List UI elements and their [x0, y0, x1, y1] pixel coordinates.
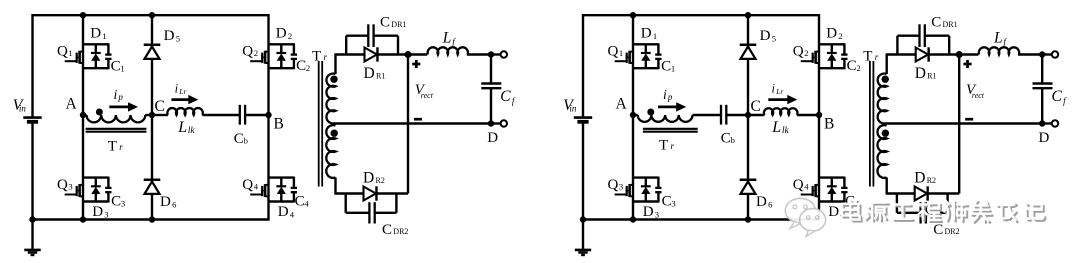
label D3: [92, 204, 108, 220]
label C2: [847, 58, 861, 74]
svg-text:DR2: DR2: [945, 227, 960, 236]
inductor Llk: [764, 108, 798, 115]
plus sign left: [412, 60, 420, 68]
label C4: [845, 194, 860, 210]
junction output plus left: [488, 51, 494, 57]
capacitor Cb: [721, 105, 735, 147]
wire middle leg: [747, 15, 749, 219]
wire center tap right: [887, 122, 1042, 124]
svg-text:f: f: [1003, 37, 1007, 47]
junction output minus left: [488, 120, 494, 126]
diode D_R2 right: [915, 186, 928, 200]
label C_DR2 left: [382, 222, 408, 238]
polarity dot secondary upper left: [330, 76, 337, 83]
svg-text:Lr: Lr: [775, 87, 783, 96]
svg-text:C: C: [931, 14, 941, 30]
svg-text:DR1: DR1: [391, 20, 406, 29]
svg-text:2: 2: [804, 48, 808, 58]
capacitor C_DR2 right: [897, 194, 948, 224]
wire Lf to output right: [1018, 53, 1042, 55]
junction ground node: [29, 216, 35, 222]
svg-text:C: C: [500, 88, 511, 105]
terminal minus left: [501, 120, 507, 126]
svg-text:T: T: [312, 48, 321, 64]
junction ground node: [580, 216, 586, 222]
transistor Q4: [250, 177, 297, 203]
svg-text:1: 1: [120, 63, 124, 73]
transformer core secondary left: [319, 61, 323, 187]
plus sign right: [963, 60, 971, 68]
svg-text:3: 3: [655, 209, 659, 219]
polarity dot secondary lower left: [331, 130, 338, 137]
terminal minus right: [1052, 120, 1058, 126]
label Cf left: [500, 88, 516, 106]
label Cf right: [1052, 88, 1068, 106]
node C: [149, 98, 165, 118]
label Q2: [793, 44, 809, 60]
polarity dot secondary upper right: [882, 76, 889, 83]
wire right leg: [267, 14, 269, 221]
wire secondary top right: [886, 55, 916, 75]
wire D_R2 to cathode line left: [377, 192, 408, 194]
svg-text:D: D: [160, 194, 171, 210]
node D left: [487, 130, 498, 146]
junction cathode node right: [956, 51, 963, 58]
svg-text:D: D: [364, 65, 375, 82]
svg-text:C: C: [234, 131, 244, 147]
junction bottom-middle: [745, 216, 751, 222]
node C: [745, 98, 761, 118]
label D4: [828, 204, 845, 220]
svg-text:C: C: [296, 58, 306, 74]
node D right: [1039, 130, 1050, 146]
wire Vin rail upper: [582, 14, 584, 117]
battery Vin: [13, 97, 42, 122]
svg-text:L: L: [771, 119, 781, 136]
label Q3: [57, 177, 73, 193]
junction bottom-left: [80, 216, 86, 222]
svg-text:R1: R1: [927, 72, 936, 81]
diode D6: [740, 180, 757, 194]
svg-text:T: T: [108, 138, 117, 154]
svg-text:D: D: [487, 130, 498, 146]
capacitor Cf left: [481, 55, 501, 124]
transformer primary winding Tr: [638, 115, 693, 122]
capacitor C_DR2 left: [346, 194, 397, 224]
svg-text:T: T: [863, 48, 872, 64]
svg-text:C: C: [933, 222, 943, 238]
label Q1: [57, 44, 73, 60]
wire to terminal plus right: [1042, 53, 1052, 55]
wire cathode line left: [407, 55, 409, 194]
wire C to Llk: [748, 114, 765, 116]
node B: [265, 112, 284, 133]
svg-text:2: 2: [856, 63, 860, 73]
label D2: [826, 25, 842, 41]
transformer core primary: [86, 129, 147, 132]
inductor Llk: [167, 108, 202, 115]
label D1: [641, 25, 657, 41]
wire D_R2 to cathode line right: [928, 192, 959, 194]
label Llk: [177, 119, 195, 136]
svg-text:3: 3: [68, 182, 72, 192]
label D1: [90, 25, 106, 41]
svg-text:DR1: DR1: [943, 20, 958, 29]
svg-text:b: b: [731, 135, 735, 145]
svg-text:D: D: [826, 25, 837, 41]
wire top rail: [583, 14, 819, 16]
transistor Q1: [615, 43, 662, 69]
svg-text:R2: R2: [927, 176, 936, 185]
terminal plus right: [1052, 51, 1058, 57]
polarity dot primary: [96, 109, 103, 116]
svg-text:i: i: [114, 87, 118, 102]
label C_DR1 left: [380, 14, 406, 30]
svg-text:D: D: [643, 204, 654, 220]
svg-text:rect: rect: [972, 91, 985, 100]
transistor Q4: [801, 177, 848, 203]
junction top-middle: [745, 12, 751, 18]
wire junction to Lf right: [959, 53, 978, 55]
current arrow ip: [109, 87, 138, 111]
junction top-middle: [149, 12, 155, 18]
wire Cb to C: [726, 114, 748, 116]
wire Cb to B: [245, 114, 268, 116]
wire Vin rail lower: [31, 122, 33, 220]
junction bottom-middle: [149, 216, 155, 222]
svg-text:B: B: [824, 116, 834, 133]
diode D6: [144, 180, 161, 194]
svg-text:C: C: [721, 131, 731, 147]
svg-text:r: r: [324, 52, 328, 62]
svg-text:C: C: [155, 98, 165, 115]
wire coil to Cb: [693, 114, 721, 116]
transformer secondary winding upper left: [326, 74, 335, 124]
capacitor Cf right: [1033, 55, 1053, 124]
wire secondary bottom left: [334, 178, 363, 194]
svg-text:C: C: [382, 222, 392, 238]
svg-text:6: 6: [172, 199, 177, 209]
wire to terminal plus left: [491, 53, 501, 55]
capacitor Cb: [234, 105, 248, 147]
wire secondary bottom right: [886, 178, 915, 194]
svg-text:Lr: Lr: [178, 87, 186, 96]
label Q2: [242, 44, 258, 60]
svg-text:D: D: [1039, 130, 1050, 146]
watermark logo: [785, 198, 825, 236]
terminal plus left: [501, 51, 507, 57]
svg-text:T: T: [659, 138, 668, 154]
diode D_R2 left: [364, 186, 377, 200]
svg-text:r: r: [119, 142, 123, 152]
svg-text:lk: lk: [188, 126, 196, 136]
svg-text:1: 1: [671, 63, 675, 73]
svg-text:L: L: [442, 29, 452, 46]
svg-text:L: L: [993, 29, 1003, 46]
label Q4: [793, 177, 809, 193]
transistor Q3: [65, 177, 112, 203]
label Llk: [771, 119, 789, 136]
label D_R2 right: [914, 170, 936, 187]
svg-text:D: D: [756, 194, 767, 210]
svg-text:in: in: [19, 104, 27, 114]
svg-text:D: D: [915, 65, 926, 82]
svg-text:C: C: [1052, 88, 1063, 105]
svg-text:4: 4: [804, 182, 809, 192]
label D5: [760, 28, 776, 44]
minus sign right: [965, 118, 973, 121]
svg-text:i: i: [772, 82, 776, 96]
node B: [816, 112, 835, 133]
capacitor C_DR1 right: [897, 24, 949, 54]
svg-text:Q: Q: [242, 177, 253, 193]
wire bottom rail: [33, 218, 269, 220]
watermark text: [842, 200, 1045, 222]
wire Llk to B: [797, 114, 819, 116]
svg-text:i: i: [175, 82, 179, 96]
label Q3: [608, 177, 624, 193]
svg-text:R1: R1: [376, 72, 385, 81]
polarity dot secondary lower right: [882, 130, 889, 137]
wire top rail: [33, 14, 269, 16]
svg-text:C: C: [847, 58, 857, 74]
diode D5: [144, 45, 161, 59]
svg-text:1: 1: [619, 48, 623, 58]
svg-text:5: 5: [176, 33, 180, 43]
svg-text:A: A: [66, 95, 78, 112]
wire Lf to output left: [467, 53, 491, 55]
label D3: [643, 204, 659, 220]
svg-text:C: C: [380, 14, 390, 30]
svg-text:6: 6: [768, 199, 773, 209]
wire coil to C: [145, 114, 152, 116]
svg-text:4: 4: [290, 209, 295, 219]
battery Vin: [563, 97, 592, 122]
svg-text:lk: lk: [782, 126, 790, 136]
current arrow ip: [658, 87, 686, 111]
label C2: [296, 58, 310, 74]
svg-text:f: f: [512, 96, 516, 106]
node A: [66, 95, 87, 118]
svg-text:r: r: [875, 52, 879, 62]
wire to terminal minus left: [491, 122, 501, 124]
svg-text:D: D: [276, 25, 287, 41]
label Tr secondary right: [863, 48, 879, 64]
wire center tap left: [336, 122, 492, 124]
current arrow iLr: [171, 82, 198, 105]
transformer secondary winding lower right: [877, 125, 886, 178]
wire C to Llk: [152, 114, 168, 116]
diode D_R1 left: [365, 47, 378, 61]
svg-text:r: r: [671, 141, 675, 151]
transformer secondary winding upper right: [878, 74, 887, 124]
svg-text:p: p: [667, 92, 673, 102]
junction output plus right: [1039, 51, 1045, 57]
ground: [24, 220, 40, 256]
label C3: [662, 194, 676, 210]
svg-text:5: 5: [772, 33, 776, 43]
svg-text:4: 4: [304, 198, 309, 208]
svg-text:p: p: [117, 92, 123, 102]
svg-text:D: D: [164, 28, 175, 44]
inductor Lf left: [428, 47, 468, 54]
svg-text:Q: Q: [57, 177, 68, 193]
transformer core secondary right: [870, 61, 874, 187]
svg-text:C: C: [751, 98, 761, 115]
label C_DR2 right: [933, 222, 959, 238]
svg-text:C: C: [295, 194, 305, 210]
wire left leg: [632, 15, 634, 219]
svg-text:Q: Q: [608, 44, 619, 60]
label C_DR1 right: [931, 14, 957, 30]
wire A to coil: [83, 114, 87, 116]
label Lf left: [442, 29, 456, 47]
svg-text:Q: Q: [793, 44, 804, 60]
label D4: [278, 204, 295, 220]
label D_R1 right: [915, 65, 937, 82]
label D_R1 left: [364, 65, 386, 82]
label Q1: [608, 44, 624, 60]
svg-text:D: D: [760, 28, 771, 44]
label Vrect right: [966, 82, 985, 100]
svg-text:2: 2: [838, 31, 842, 41]
wire Llk to Cb: [202, 114, 239, 116]
label D_R2 left: [363, 170, 385, 187]
wire A to coil: [633, 114, 638, 116]
svg-text:C: C: [661, 59, 671, 75]
svg-text:2: 2: [254, 48, 258, 58]
label Tr primary: [108, 138, 124, 154]
svg-text:Q: Q: [57, 44, 68, 60]
transistor Q3: [615, 177, 662, 203]
svg-text:3: 3: [104, 209, 108, 219]
transistor Q1: [65, 43, 112, 69]
wire bottom rail: [583, 218, 819, 220]
svg-text:D: D: [92, 204, 103, 220]
svg-text:C: C: [111, 59, 121, 75]
wire junction to Lf left: [408, 53, 427, 55]
svg-text:in: in: [569, 104, 577, 114]
transformer core primary: [643, 129, 698, 132]
svg-text:A: A: [616, 95, 628, 112]
svg-text:B: B: [274, 116, 284, 133]
svg-text:D: D: [641, 25, 652, 41]
svg-text:Q: Q: [793, 177, 804, 193]
svg-text:rect: rect: [421, 91, 434, 100]
junction top-left: [630, 12, 636, 18]
wire left leg: [82, 15, 84, 219]
svg-text:D: D: [363, 170, 374, 187]
svg-text:i: i: [663, 87, 667, 102]
svg-text:Q: Q: [608, 177, 619, 193]
svg-text:R2: R2: [376, 176, 385, 185]
capacitor C_DR1 left: [346, 24, 398, 54]
junction output minus right: [1039, 120, 1045, 126]
svg-text:L: L: [177, 119, 187, 136]
svg-text:Q: Q: [242, 44, 253, 60]
transistor Q2: [250, 43, 297, 69]
svg-text:1: 1: [68, 48, 72, 58]
svg-text:2: 2: [306, 63, 310, 73]
label D6: [160, 194, 177, 210]
label Tr primary: [659, 138, 675, 154]
svg-text:D: D: [914, 170, 925, 187]
wire Vin rail upper: [31, 14, 33, 117]
label Q4: [242, 177, 258, 193]
label D5: [164, 28, 180, 44]
svg-text:b: b: [244, 135, 248, 145]
junction bottom-left: [630, 216, 636, 222]
wire Vin rail lower: [582, 122, 584, 220]
transformer primary winding Tr: [87, 115, 146, 122]
transistor Q2: [801, 43, 848, 69]
wire secondary top left: [334, 55, 364, 75]
svg-text:2: 2: [288, 31, 292, 41]
diode D_R1 right: [916, 47, 929, 61]
svg-text:C: C: [111, 194, 121, 210]
svg-text:3: 3: [121, 198, 125, 208]
svg-text:f: f: [452, 37, 456, 47]
svg-text:f: f: [1063, 96, 1067, 106]
svg-text:1: 1: [653, 31, 657, 41]
label C1: [661, 59, 675, 75]
label D6: [756, 194, 773, 210]
wire D_R1 to junction right: [929, 53, 959, 55]
label D2: [276, 25, 292, 41]
label C3: [111, 194, 125, 210]
diode D5: [740, 45, 757, 59]
inductor Lf right: [979, 47, 1019, 54]
wire right leg: [818, 14, 820, 221]
minus sign left: [414, 118, 422, 121]
label C4: [295, 194, 310, 210]
polarity dot primary: [647, 109, 654, 116]
svg-text:D: D: [278, 204, 289, 220]
label C1: [111, 59, 125, 75]
label Lf right: [993, 29, 1007, 47]
svg-text:D: D: [828, 204, 839, 220]
label Vrect left: [415, 82, 434, 100]
transformer secondary winding lower left: [326, 125, 335, 178]
svg-text:C: C: [662, 194, 672, 210]
wire cathode line right: [958, 55, 960, 194]
junction cathode node left: [405, 51, 412, 58]
wire to terminal minus right: [1042, 122, 1052, 124]
svg-text:4: 4: [254, 182, 259, 192]
label Tr secondary left: [312, 48, 328, 64]
svg-text:DR2: DR2: [393, 227, 408, 236]
svg-text:3: 3: [671, 198, 675, 208]
svg-text:1: 1: [102, 31, 106, 41]
node A: [616, 95, 637, 118]
current arrow iLr: [768, 82, 797, 105]
svg-text:D: D: [90, 25, 101, 41]
junction top-left: [80, 12, 86, 18]
ground: [575, 220, 591, 256]
wire middle leg: [151, 15, 153, 219]
svg-text:3: 3: [619, 182, 623, 192]
wire D_R1 to junction left: [378, 53, 408, 55]
